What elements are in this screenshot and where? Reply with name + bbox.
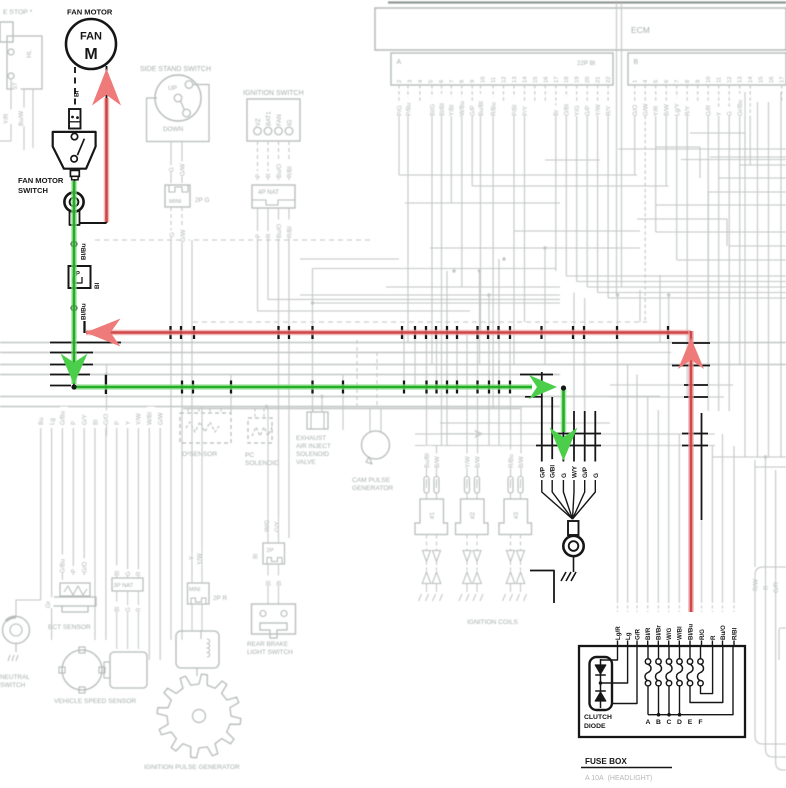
- wire to neutral switch: [16, 600, 41, 617]
- junction bars near green arrow: [520, 374, 553, 376]
- svg-text:R/Y: R/Y: [685, 106, 692, 116]
- fuse wires dashed segment: [617, 600, 619, 612]
- svg-text:Bl: Bl: [74, 90, 81, 97]
- svg-text:P/Y: P/Y: [522, 106, 529, 116]
- harness mesh horizontals: [399, 174, 637, 176]
- ground symbol: [573, 556, 575, 572]
- svg-text:Y/Bl: Y/Bl: [449, 105, 456, 116]
- ECM connector A (22P Bl): [391, 53, 613, 85]
- svg-text:G: G: [126, 571, 132, 576]
- svg-text:B/W: B/W: [518, 456, 525, 468]
- svg-text:CLUTCH: CLUTCH: [584, 714, 612, 721]
- svg-text:ECT SENSOR: ECT SENSOR: [48, 624, 91, 631]
- svg-text:14: 14: [522, 76, 528, 83]
- svg-text:Y: Y: [716, 112, 723, 116]
- wires side stand to MINI connector: [170, 142, 172, 184]
- label Bl/Bu upper: [81, 237, 89, 260]
- svg-text:IGNITION SWITCH: IGNITION SWITCH: [243, 90, 304, 97]
- svg-text:Y/W: Y/W: [595, 104, 602, 116]
- junction dot green corner: [71, 384, 76, 389]
- svg-text:REAR BRAKE: REAR BRAKE: [247, 641, 288, 648]
- svg-text:Bl/R: Bl/R: [645, 627, 652, 640]
- junction dots gray: [105, 373, 108, 376]
- svg-text:VEHICLE SPEED SENSOR: VEHICLE SPEED SENSOR: [54, 698, 136, 705]
- highlight red wire from fuse box horizontal: [86, 330, 691, 336]
- svg-text:7: 7: [675, 80, 681, 83]
- svg-text:Bu/O: Bu/O: [276, 224, 283, 238]
- ECM connector B: [628, 53, 786, 85]
- fan motor M1: [66, 19, 116, 69]
- extra upper-right mesh: [690, 132, 745, 134]
- svg-text:O²SENSOR: O²SENSOR: [182, 451, 217, 458]
- svg-text:9: 9: [470, 80, 476, 83]
- clutch diode wiring: [601, 646, 618, 660]
- svg-text:SWITCH: SWITCH: [0, 682, 26, 689]
- svg-text:Lg: Lg: [625, 632, 632, 640]
- svg-text:SOLENOID: SOLENOID: [245, 460, 279, 467]
- svg-text:P/Bl: P/Bl: [511, 105, 518, 116]
- svg-text:4P NAT: 4P NAT: [258, 189, 279, 196]
- svg-text:2: 2: [397, 80, 403, 83]
- svg-text:#2: #2: [470, 511, 477, 519]
- svg-text:R/W: R/W: [753, 579, 760, 591]
- ignition coil 2: [465, 453, 473, 468]
- green arrowhead down at ground wires: [550, 428, 578, 461]
- svg-text:M: M: [84, 46, 97, 63]
- black bus emphasis near green wire: [50, 342, 121, 344]
- svg-text:G: G: [561, 473, 568, 478]
- fuse feed wires inside box: [647, 646, 649, 659]
- wires below MINI 2P G: [170, 207, 172, 240]
- svg-text:Bl: Bl: [254, 554, 260, 559]
- svg-text:G/P: G/P: [585, 105, 592, 116]
- svg-text:R/Bl: R/Bl: [731, 627, 738, 640]
- svg-text:MINI: MINI: [169, 199, 182, 205]
- svg-text:14: 14: [748, 76, 754, 83]
- green arrowhead down: [61, 354, 88, 385]
- svg-text:O/Bl: O/Bl: [564, 104, 571, 116]
- svg-text:LIGHT SWITCH: LIGHT SWITCH: [247, 649, 293, 656]
- svg-text:20: 20: [585, 77, 591, 83]
- svg-text:F: F: [698, 719, 702, 726]
- ground fan-out wires: [541, 411, 543, 462]
- junction ticks on red bus wire: [169, 326, 171, 339]
- wire fan motor left lead: [74, 67, 76, 108]
- svg-text:1: 1: [633, 80, 639, 83]
- svg-text:Gr/Bu: Gr/Bu: [737, 99, 744, 116]
- svg-text:BAT1: BAT1: [266, 111, 272, 126]
- wires below 4P NAT: [257, 208, 259, 311]
- svg-text:2P G: 2P G: [195, 197, 209, 204]
- highlight green wire down to ground: [561, 388, 567, 432]
- svg-text:A 10A (HEADLIGHT): A 10A (HEADLIGHT): [585, 775, 652, 782]
- svg-text:G/O: G/O: [82, 561, 89, 573]
- svg-text:22P Bl: 22P Bl: [577, 60, 595, 67]
- fuses A-F: [645, 659, 650, 664]
- svg-text:Bl: Bl: [115, 607, 121, 612]
- junction ticks on green bus wire: [181, 381, 183, 394]
- ignition coil 1: [424, 446, 432, 468]
- svg-text:Br: Br: [553, 110, 560, 116]
- svg-text:UP: UP: [168, 85, 177, 92]
- svg-text:R/Bl: R/Bl: [286, 226, 293, 238]
- junction dot green tee: [561, 385, 566, 390]
- dashed harness horizontals: [193, 321, 647, 323]
- svg-text:FAN MOTOR: FAN MOTOR: [18, 176, 64, 185]
- svg-text:2P R: 2P R: [213, 595, 227, 602]
- svg-text:IGNITION PULSE GENERATOR: IGNITION PULSE GENERATOR: [144, 764, 240, 771]
- wires ignition switch to 4P NAT: [257, 141, 259, 183]
- svg-text:D: D: [677, 719, 682, 726]
- svg-text:Bu/W: Bu/W: [18, 111, 25, 126]
- svg-text:P: P: [255, 174, 262, 178]
- dashed G/W wire: [644, 85, 646, 322]
- svg-text:P: P: [114, 421, 121, 425]
- svg-text:G/Y: G/Y: [82, 414, 89, 425]
- svg-text:G/P: G/P: [470, 105, 477, 116]
- svg-text:G/W: G/W: [643, 103, 650, 116]
- svg-text:R: R: [265, 233, 272, 238]
- svg-text:G: G: [126, 607, 132, 612]
- svg-text:B/W: B/W: [434, 456, 441, 468]
- ECM A harness verticals: [398, 85, 400, 118]
- svg-text:G/W: G/W: [180, 229, 187, 242]
- svg-text:Bl: Bl: [266, 581, 272, 586]
- svg-text:FAN MOTOR: FAN MOTOR: [67, 8, 113, 17]
- svg-text:6: 6: [439, 80, 445, 83]
- svg-text:SWITCH: SWITCH: [18, 186, 48, 195]
- svg-text:W/Bl: W/Bl: [677, 626, 684, 640]
- PC solenoid: [248, 418, 272, 443]
- rear brake light switch: [252, 604, 296, 634]
- clutch diode D1: [590, 657, 613, 710]
- svg-text:MINI: MINI: [189, 587, 200, 593]
- svg-text:Y/R: Y/R: [653, 105, 660, 116]
- svg-text:9: 9: [696, 80, 702, 83]
- svg-text:VZ: VZ: [256, 118, 262, 126]
- svg-text:Y: Y: [125, 421, 132, 425]
- junction wire stub at green bus: [105, 375, 107, 394]
- svg-text:Bl/Bl: Bl/Bl: [439, 103, 446, 116]
- svg-text:EXHAUST: EXHAUST: [296, 435, 326, 442]
- svg-text:VALVE: VALVE: [296, 459, 316, 466]
- svg-text:10: 10: [481, 77, 487, 83]
- cam pulse generator: [362, 431, 390, 459]
- svg-text:W/Bl: W/Bl: [147, 412, 154, 425]
- svg-text:12: 12: [502, 77, 508, 83]
- dashed verticals above O2 area: [356, 340, 358, 409]
- svg-text:Lg: Lg: [49, 418, 56, 425]
- fuse bottom bus: [647, 686, 649, 715]
- svg-text:FAN: FAN: [277, 114, 283, 126]
- svg-text:13: 13: [738, 77, 744, 83]
- svg-text:G/W: G/W: [158, 412, 165, 425]
- fuse box outline: [579, 646, 745, 737]
- svg-text:18: 18: [564, 77, 570, 83]
- rear brake light switch wires: [264, 517, 272, 532]
- svg-text:Bl/Bu: Bl/Bu: [81, 243, 88, 260]
- svg-text:DIODE: DIODE: [584, 723, 606, 730]
- svg-text:3P NAT: 3P NAT: [114, 583, 134, 589]
- connector 4P NAT: [252, 185, 295, 208]
- right side bus stubs: [610, 384, 733, 386]
- svg-text:Lg/R: Lg/R: [615, 626, 622, 640]
- junction stub above red arrow tip: [83, 321, 85, 333]
- 3P NAT connector: [115, 566, 123, 576]
- wire harness top rail: [388, 1, 786, 3]
- svg-text:R/Bl: R/Bl: [286, 166, 293, 178]
- fan-out labels: [540, 463, 548, 478]
- svg-text:Bl/Br: Bl/Br: [656, 625, 663, 640]
- svg-text:#3: #3: [513, 511, 520, 519]
- highlight green wire horizontal: [74, 384, 532, 390]
- svg-text:ECM: ECM: [631, 25, 650, 35]
- svg-text:G/W: G/W: [180, 163, 187, 176]
- svg-text:FAN: FAN: [80, 31, 102, 43]
- svg-text:16: 16: [543, 77, 549, 83]
- green arrowhead right: [529, 375, 557, 399]
- svg-text:B/W: B/W: [474, 456, 481, 468]
- svg-text:Bl/Bu: Bl/Bu: [81, 303, 88, 320]
- svg-text:Y/W: Y/W: [464, 456, 471, 468]
- svg-text:P: P: [71, 421, 78, 425]
- svg-text:Bl/Bu: Bl/Bu: [687, 624, 694, 640]
- svg-text:P/Bu: P/Bu: [405, 102, 412, 116]
- fuse E F return wiring: [690, 646, 723, 703]
- svg-text:22: 22: [606, 77, 612, 83]
- svg-text:IGNITION COILS: IGNITION COILS: [467, 619, 519, 626]
- svg-text:15: 15: [759, 77, 765, 83]
- svg-text:B/W: B/W: [664, 104, 671, 116]
- svg-text:Bl: Bl: [92, 419, 99, 425]
- svg-text:17: 17: [780, 77, 786, 83]
- black elbow wire near coils: [530, 571, 554, 604]
- svg-text:P: P: [71, 569, 78, 573]
- right side harness corners: [755, 567, 786, 744]
- red arrowhead up at fan motor: [92, 69, 121, 106]
- svg-text:13: 13: [512, 77, 518, 83]
- svg-text:CAM PULSE: CAM PULSE: [352, 477, 391, 484]
- svg-text:R/Bu: R/Bu: [508, 454, 515, 468]
- ECM B harness verticals: [634, 85, 636, 118]
- svg-text:R/Bu: R/Bu: [490, 102, 497, 116]
- svg-text:19: 19: [575, 77, 581, 83]
- svg-text:GENERATOR: GENERATOR: [352, 485, 393, 492]
- labels R/W R G/R right side: [753, 576, 761, 591]
- svg-text:SIDE STAND SWITCH: SIDE STAND SWITCH: [140, 66, 211, 73]
- svg-text:G/Bu: G/Bu: [60, 558, 67, 573]
- svg-text:8: 8: [685, 80, 691, 83]
- svg-text:W/G: W/G: [666, 627, 673, 640]
- svg-text:W/Bu: W/Bu: [459, 100, 466, 116]
- ECM A unused pin stubs: [419, 85, 421, 103]
- svg-text:Bl: Bl: [277, 581, 283, 586]
- svg-text:IG: IG: [287, 119, 293, 126]
- svg-text:G/P: G/P: [539, 466, 546, 478]
- svg-text:21: 21: [596, 77, 602, 83]
- svg-text:6: 6: [664, 80, 670, 83]
- connector 2P gray: [263, 543, 285, 564]
- svg-text:G: G: [593, 473, 600, 478]
- fuse box wire labels: [615, 622, 623, 640]
- connector 2P black: [69, 266, 91, 288]
- left bus horizontals: [0, 342, 786, 344]
- svg-text:11: 11: [491, 77, 497, 83]
- svg-text:G/R: G/R: [634, 628, 641, 640]
- svg-text:G: G: [727, 111, 734, 116]
- mid harness drop verticals: [446, 271, 448, 446]
- svg-text:Bu: Bu: [38, 417, 45, 425]
- vehicle speed sensor: [62, 650, 102, 690]
- svg-text:Gr: Gr: [45, 601, 52, 608]
- svg-text:G/R: G/R: [706, 104, 713, 116]
- ignition coil 3: [508, 450, 516, 468]
- wire Bl/Bu fan motor switch down: [73, 193, 75, 387]
- svg-text:P/G: P/G: [396, 105, 403, 116]
- svg-text:G: G: [169, 232, 176, 237]
- svg-text:HL: HL: [26, 50, 33, 58]
- svg-text:R: R: [265, 173, 272, 178]
- svg-text:C: C: [667, 719, 672, 726]
- ignition wire elbows: [258, 310, 471, 312]
- svg-text:ST: ST: [12, 82, 19, 90]
- fan motor switch S1: [69, 109, 81, 129]
- connector MINI 2P G: [165, 185, 190, 207]
- svg-text:R/Y: R/Y: [605, 106, 612, 116]
- svg-text:Y/R: Y/R: [3, 113, 10, 124]
- svg-text:E: E: [688, 719, 693, 726]
- svg-text:R: R: [137, 607, 143, 612]
- svg-text:5: 5: [654, 80, 660, 83]
- svg-text:7: 7: [449, 80, 455, 83]
- fuse wires gray upper: [617, 295, 619, 600]
- svg-text:R/G: R/G: [699, 629, 706, 640]
- svg-text:G/Y: G/Y: [274, 521, 281, 532]
- highlight red wire from fuse box vertical: [688, 331, 694, 612]
- wire fan motor right lead to switch eyelet: [106, 66, 108, 223]
- highlight green wire fan motor switch down: [71, 181, 77, 384]
- svg-text:NEUTRAL: NEUTRAL: [0, 674, 30, 681]
- svg-text:W/G: W/G: [264, 519, 271, 532]
- ECM U1 outline: [375, 8, 786, 50]
- svg-text:12: 12: [727, 77, 733, 83]
- svg-text:B: B: [656, 719, 661, 726]
- faded gray arrow remnant: [474, 430, 484, 439]
- staircase harness to right edge: [566, 275, 786, 277]
- eyelet terminal of fan motor switch: [74, 180, 76, 193]
- svg-text:5: 5: [428, 80, 434, 83]
- svg-text:Lg/Y: Lg/Y: [674, 103, 681, 116]
- svg-text:B: B: [634, 59, 639, 66]
- svg-text:R: R: [137, 571, 143, 576]
- svg-text:G/R: G/R: [773, 581, 780, 593]
- harness drops red to green: [403, 335, 405, 387]
- svg-text:Bl/G: Bl/G: [429, 104, 436, 116]
- neutral switch: [3, 617, 30, 644]
- red arrowhead left: [86, 319, 121, 347]
- left lower harness bundle: [39, 414, 47, 425]
- red arrowhead up at fuse wire: [678, 338, 704, 369]
- highlight red wire to fan motor: [104, 98, 110, 222]
- black wire segment R/G above fuse box: [701, 413, 703, 520]
- bullet connector lower: [71, 305, 76, 310]
- svg-text:DOWN: DOWN: [163, 126, 184, 133]
- svg-text:Bu/O: Bu/O: [276, 164, 283, 178]
- svg-text:PC: PC: [245, 452, 254, 459]
- svg-text:R: R: [763, 585, 770, 590]
- svg-text:G/O: G/O: [103, 413, 110, 425]
- ECT sensor: [60, 555, 68, 573]
- svg-text:#1: #1: [429, 511, 436, 519]
- svg-text:15: 15: [533, 77, 539, 83]
- svg-text:A: A: [397, 59, 402, 66]
- junction bars on fan-out: [556, 433, 601, 435]
- svg-text:AIR INJECT: AIR INJECT: [296, 443, 331, 450]
- svg-text:G/O: G/O: [632, 104, 639, 116]
- ignition pulse generator rotor: [157, 674, 241, 758]
- MINI 2P R connector: [189, 553, 197, 560]
- stop switch fragment top left: [0, 22, 13, 42]
- svg-text:R: R: [710, 635, 717, 640]
- O2 sensor: [180, 413, 231, 443]
- svg-text:17: 17: [554, 77, 560, 83]
- svg-text:G/P: G/P: [582, 466, 589, 478]
- ground eyelet terminal: [568, 521, 579, 535]
- svg-text:A: A: [646, 719, 651, 726]
- label Bl/Bu lower: [81, 297, 89, 320]
- junction bars on red vertical wire: [672, 342, 710, 344]
- svg-text:W/Y: W/Y: [572, 465, 579, 478]
- svg-text:11: 11: [717, 77, 723, 83]
- pulse generator coil: [176, 631, 219, 668]
- ECM B unused pin stubs: [697, 85, 699, 103]
- fan-out converging wires: [542, 480, 573, 519]
- svg-text:SOLENOID: SOLENOID: [296, 451, 329, 458]
- svg-text:8: 8: [460, 80, 466, 83]
- svg-text:P: P: [255, 234, 262, 238]
- bullet connector upper: [71, 241, 76, 246]
- svg-text:Bu/Bl: Bu/Bl: [478, 101, 485, 116]
- svg-text:G: G: [169, 167, 176, 172]
- svg-text:FUSE BOX: FUSE BOX: [585, 757, 627, 766]
- exhaust air inject solenoid valve: [307, 412, 328, 429]
- svg-text:Bu/O: Bu/O: [720, 625, 727, 640]
- svg-text:10: 10: [706, 77, 712, 83]
- svg-text:3: 3: [407, 80, 413, 83]
- svg-text:Bl: Bl: [115, 571, 121, 576]
- svg-text:G/Bu: G/Bu: [60, 410, 67, 425]
- svg-text:Bu/Bl: Bu/Bl: [424, 453, 431, 468]
- svg-text:16: 16: [769, 77, 775, 83]
- svg-text:E STOP *: E STOP *: [3, 9, 33, 16]
- svg-text:Y/G: Y/G: [574, 105, 581, 116]
- svg-text:Bl: Bl: [94, 282, 101, 289]
- svg-text:G/Bl: G/Bl: [550, 465, 557, 478]
- svg-text:2P: 2P: [267, 548, 274, 554]
- svg-text:Y/W: Y/W: [136, 413, 143, 425]
